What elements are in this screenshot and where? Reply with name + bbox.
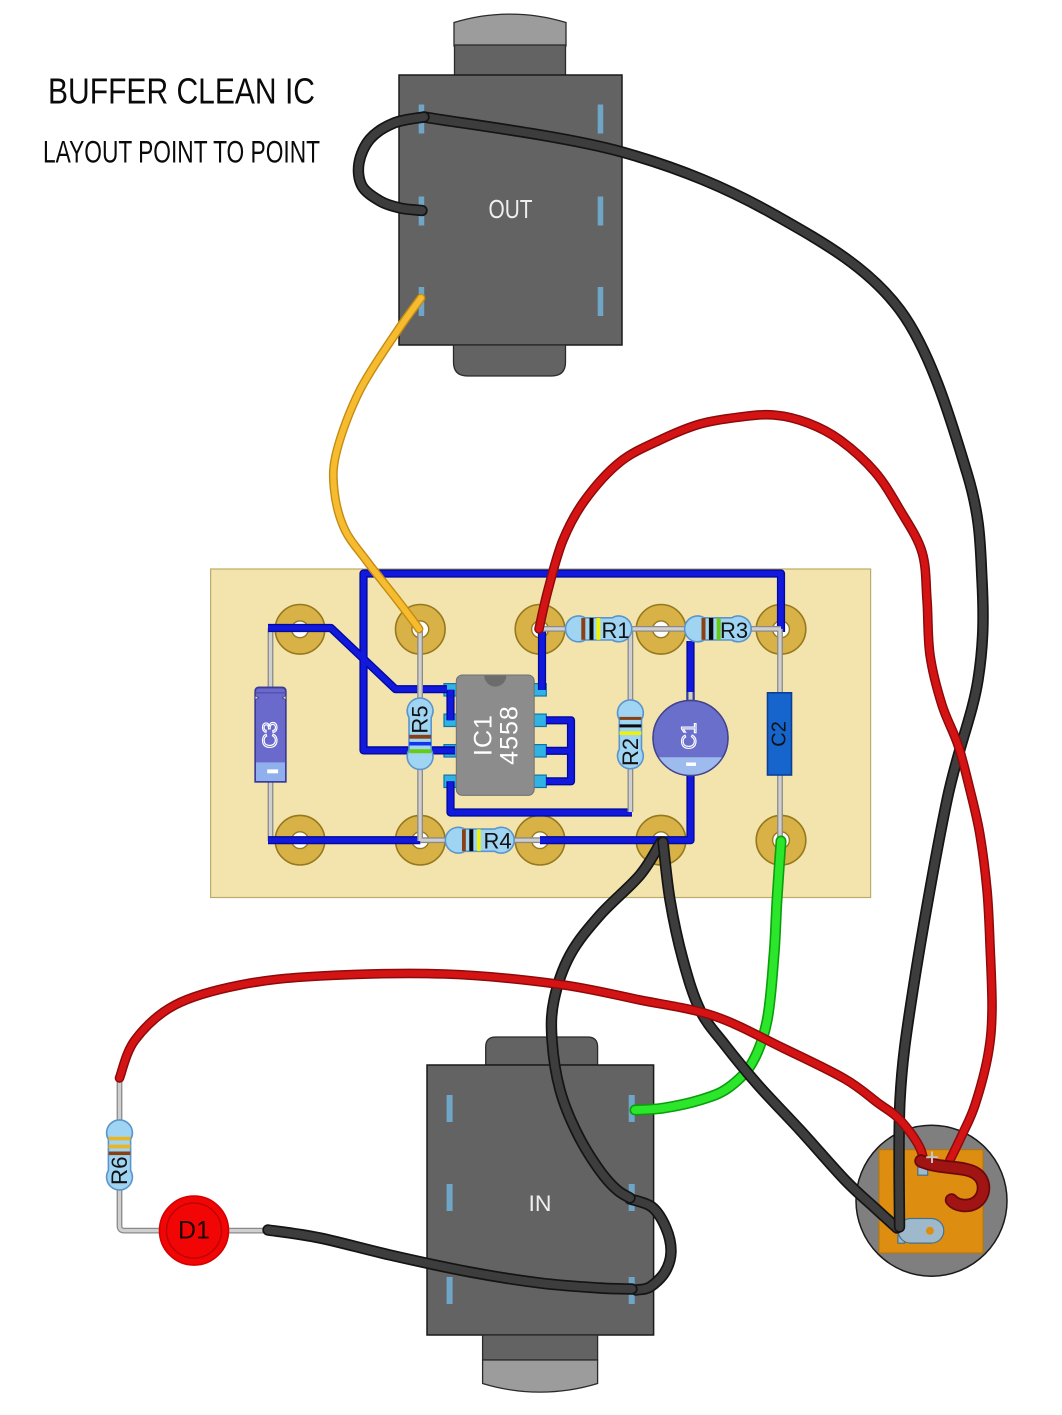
lead R5 bottom (outline) (417, 767, 423, 841)
lead R6 bottom to D1 (outline) (120, 1187, 163, 1231)
lead D1 right (226, 1229, 270, 1232)
pad B2 (bottom row 2) (396, 815, 446, 865)
resistor R1 (566, 616, 632, 643)
lead R3 right (outline) (749, 626, 781, 632)
wire trace: pad A3 to IC pin8 (outline) (538, 628, 546, 690)
jack OUT : body (399, 75, 622, 345)
svg-text:IN: IN (529, 1191, 552, 1216)
lead C1 top stub (689, 692, 692, 702)
LED D1 (160, 1196, 229, 1265)
capacitor C3 (electrolytic, axial) (255, 687, 286, 781)
svg-text:LAYOUT POINT TO POINT: LAYOUT POINT TO POINT (43, 134, 320, 170)
jack IN : body (427, 1065, 654, 1335)
battery snap stud tab (898, 1235, 905, 1243)
jack IN lug ring (mid-right) (629, 1184, 635, 1211)
pad A1 (top row 1) (275, 605, 325, 655)
jack OUT lug (mid-right) (598, 197, 604, 226)
wire black: IN ring to sleeve jumper (630, 1199, 671, 1290)
battery snap stud hole (926, 1227, 934, 1235)
pad B4 (bottom row 4) (636, 815, 686, 865)
svg-text:D1: D1 (178, 1217, 210, 1245)
resistor R4 (445, 827, 514, 853)
resistor R2 (618, 700, 644, 769)
wire trace: C1 bottom to pad B3 (540, 775, 691, 840)
lead R1 left (outline) (540, 626, 567, 632)
jack OUT : bottom tab (454, 345, 566, 376)
lead C3 top (268, 628, 274, 689)
battery snap terminal (+ small) (918, 1167, 928, 1175)
jack OUT lug (top-right) (598, 105, 604, 134)
lead C2 top (outline) (777, 629, 783, 695)
lead R2 bottom (outline) (628, 754, 634, 812)
pad A3 (top row 3) (515, 605, 565, 655)
svg-text:IC1: IC1 (470, 714, 498, 756)
jack OUT lug sleeve (bottom-left) (419, 287, 425, 316)
svg-text:R6: R6 (107, 1156, 132, 1185)
wire trace: IC pin4 to R2 (outline) (451, 781, 633, 812)
lead D1 right (outline) (226, 1228, 270, 1234)
jack IN lug (bottom-left) (447, 1277, 453, 1304)
lead R4 right (512, 839, 540, 842)
jack IN lug (mid-left) (447, 1184, 453, 1211)
wire trace: jumper pin1-pin2 (448, 690, 453, 721)
resistor R5 (407, 698, 433, 769)
lead C3 bottom (268, 780, 274, 841)
pad B5 (bottom row 5) (756, 815, 806, 865)
pad B1 (bottom row 1) (275, 815, 325, 865)
wire red: pad A3 to battery clip (539, 415, 992, 1160)
lead R3 left (outline) (661, 626, 686, 632)
svg-text:BUFFER CLEAN IC: BUFFER CLEAN IC (48, 71, 315, 112)
lead R3 right (749, 627, 781, 630)
jack IN : bottom cap (483, 1360, 598, 1392)
wire trace: V+ rail loop (pin3 to pad A5) (outline) (364, 574, 782, 751)
svg-text:C2: C2 (769, 721, 791, 747)
pad A4 (top row 4) (636, 605, 686, 655)
battery snap stud (898, 1219, 944, 1244)
svg-text:R4: R4 (483, 829, 511, 854)
lead C2 top (778, 629, 781, 695)
lead R6 top (118, 1076, 121, 1123)
wire black: OUT sleeve to battery (424, 117, 983, 1227)
wire trace: pins 5-6-7 link (outline) (546, 720, 571, 781)
wire trace: pins 5-6-7 link (546, 720, 571, 781)
lead R2 top (outline) (628, 629, 634, 702)
IC1 pins 1-8 (444, 684, 456, 696)
wire black: pad B4 ground to battery (663, 842, 897, 1228)
capacitor C2 (film box) (768, 693, 792, 775)
jack OUT lug (bottom-right) (598, 287, 604, 316)
jack OUT : cap (454, 14, 566, 46)
lead R4 left (420, 839, 447, 842)
lead R2 bottom (629, 754, 632, 812)
wire black: D1 to IN sleeve lug (268, 1230, 632, 1289)
svg-text:C1: C1 (678, 723, 701, 750)
jack IN lug sleeve (bottom-right) (629, 1277, 635, 1304)
wire trace: C3 bottom to pad B2 (outline) (268, 836, 420, 844)
wire yellow: OUT sleeve lug to pad A2 (333, 298, 421, 629)
jack OUT lug tip (top-left) (419, 105, 425, 134)
wire red: battery clip hook end (921, 1161, 984, 1206)
wire green: pad B5 to IN tip lug (635, 841, 781, 1110)
capacitor C1 (electrolytic, radial top view) (653, 701, 728, 776)
lead R5 bottom (419, 767, 422, 841)
lead C1 top stub (outline) (688, 692, 694, 702)
pad A5 (top row 5) (756, 605, 806, 655)
svg-text:R2: R2 (618, 738, 643, 766)
resistor R6 (107, 1120, 133, 1190)
wire red: R6 to battery positive (120, 974, 925, 1161)
wire black: pad B4 to IN ring lug (551, 842, 661, 1198)
lead R1 right (630, 627, 661, 630)
lead R5 top (outline) (417, 629, 423, 703)
svg-text:OUT: OUT (489, 194, 533, 224)
jack IN : bottom neck (483, 1335, 598, 1360)
wire trace: R3 lead to C1 top (688, 641, 693, 700)
svg-text:R3: R3 (720, 618, 748, 643)
jack IN lug tip (top-right) (629, 1095, 635, 1122)
battery snap B1 : 9V battery top (orange) (879, 1150, 983, 1253)
jack OUT lug ring (mid-left) (419, 197, 425, 226)
lead R3 left (661, 627, 686, 630)
jack IN : top tab (486, 1037, 598, 1065)
svg-text:R1: R1 (601, 618, 629, 643)
lead R5 top (419, 629, 422, 703)
wire black: OUT tip loop to ring (358, 117, 424, 211)
wire trace: C3 to IC pin1 (outline) (268, 628, 447, 689)
battery snap B1 : base circle (856, 1125, 1007, 1276)
wire trace: jumper pin1-pin2 (outline) (446, 690, 454, 721)
lead C2 bottom (outline) (777, 773, 783, 841)
wire trace: pad A3 to IC pin8 (539, 628, 544, 690)
jack OUT : neck (455, 45, 566, 76)
lead C2 bottom (778, 773, 781, 841)
lead R1 right (outline) (630, 626, 661, 632)
battery snap terminal (- small) (949, 1198, 958, 1206)
lead R2 top (629, 629, 632, 702)
op-amp IC1 4558 (DIP-8) (456, 675, 534, 795)
lead R4 left (outline) (420, 837, 447, 843)
wire trace: C3 bottom to pad B2 (268, 838, 420, 843)
lead R6 bottom to D1 (120, 1187, 163, 1231)
svg-text:R5: R5 (408, 705, 433, 733)
resistor R3 (685, 616, 752, 643)
wire trace: C3 to IC pin1 (268, 628, 447, 689)
svg-text:C3: C3 (259, 722, 282, 749)
jack IN lug (top-left) (447, 1095, 453, 1122)
battery plus mark (926, 1152, 938, 1164)
svg-text:4558: 4558 (496, 705, 524, 765)
lead R1 left (540, 627, 567, 630)
perfboard (211, 569, 871, 898)
wire trace: C1 bottom to pad B3 (outline) (540, 775, 691, 840)
wire trace: V+ rail loop (pin3 to pad A5) (364, 574, 782, 751)
pad B3 (bottom row 3) (515, 815, 565, 865)
wire trace: R3 lead to C1 top (outline) (686, 641, 694, 700)
pad A2 (top row 2) (396, 605, 446, 655)
lead R6 top (outline) (117, 1076, 123, 1123)
lead R4 right (outline) (512, 837, 540, 843)
wire trace: IC pin4 to R2 (451, 781, 633, 812)
